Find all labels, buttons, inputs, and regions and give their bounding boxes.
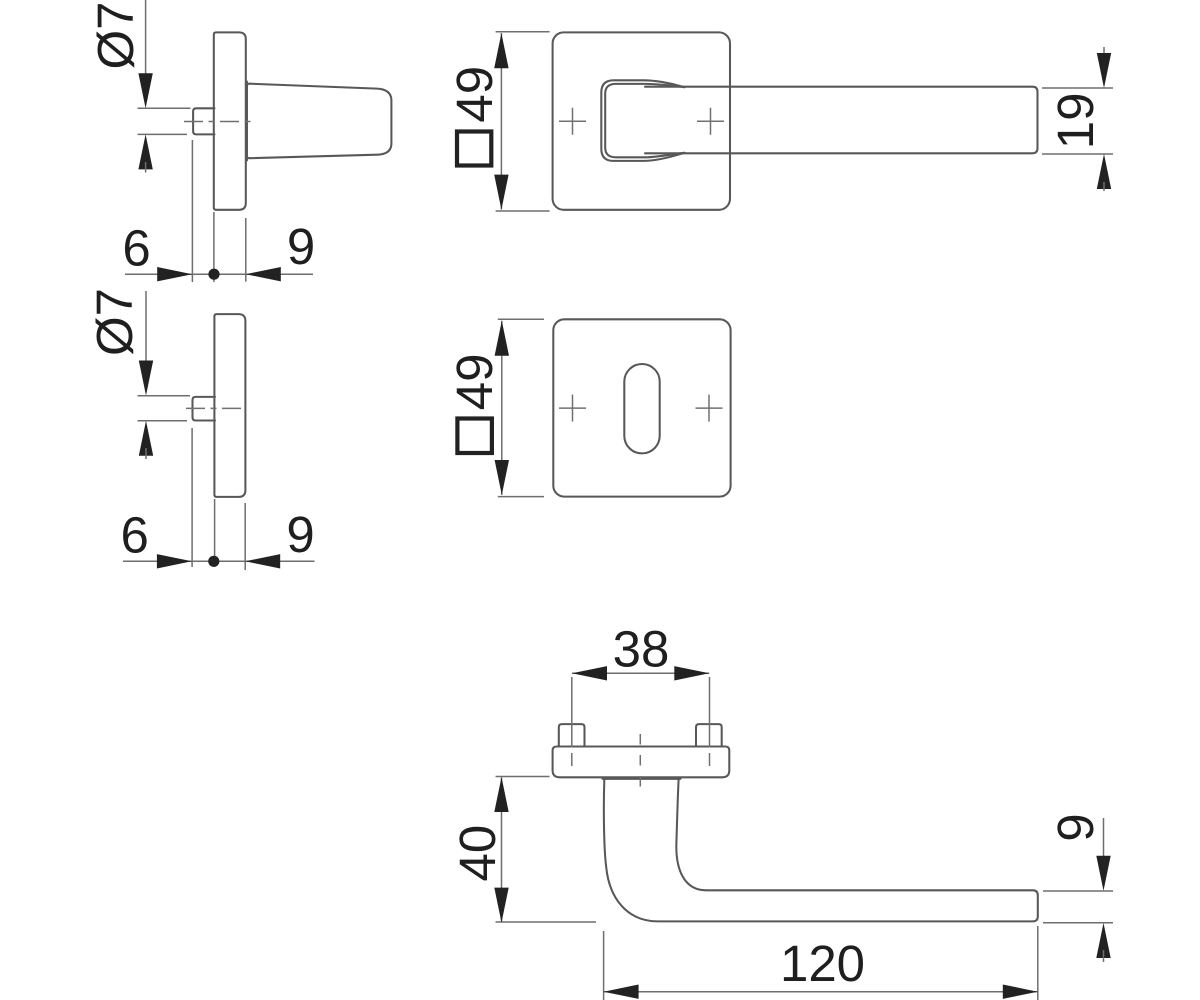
handle neck cone base line xyxy=(246,82,248,161)
svg-text:9: 9 xyxy=(286,506,314,563)
svg-text:38: 38 xyxy=(613,620,670,677)
extension line from rose face xyxy=(214,499,216,567)
spindle stub Ø7 xyxy=(193,397,216,421)
dimension Ø7 extension line top xyxy=(138,107,191,109)
dimension line 6 / 9 xyxy=(123,560,315,562)
dimension Ø7 upper line and arrow xyxy=(145,291,147,367)
spindle stub Ø7 xyxy=(193,108,214,134)
dimension line 6 / 9 xyxy=(125,273,313,275)
dimension Ø7 lower arrow with tail xyxy=(138,134,152,169)
extension line from stub left edge xyxy=(191,140,193,282)
rosette side profile xyxy=(214,32,246,209)
arrow right (9) xyxy=(246,267,281,281)
key rose side profile xyxy=(214,314,245,497)
dimension Ø7 lower arrow with tail xyxy=(139,421,153,456)
screw mark left (+) xyxy=(559,395,586,422)
reference dot at rose face xyxy=(208,556,219,567)
handle neck inner contour xyxy=(605,84,684,157)
extension line from rosette face xyxy=(213,212,215,282)
handle neck cone outline xyxy=(247,84,392,159)
svg-text:6: 6 xyxy=(121,506,149,563)
arrow left (6) xyxy=(157,554,192,568)
svg-text:Ø7: Ø7 xyxy=(86,288,143,356)
dimension 9 arrows outside xyxy=(1103,818,1105,862)
centerline of key rose xyxy=(186,407,246,409)
dimension line 38 with arrows xyxy=(572,672,709,674)
lever bar xyxy=(645,87,1038,154)
screw boss right xyxy=(696,724,722,746)
svg-text:19: 19 xyxy=(1047,93,1104,150)
extension line from rose right edge xyxy=(244,503,246,570)
centerline plate middle xyxy=(639,734,641,790)
svg-text:120: 120 xyxy=(780,935,865,992)
dimension Ø7 extension line bottom xyxy=(138,133,188,135)
extension line from cone base xyxy=(245,218,247,282)
arrow right (9) xyxy=(245,554,280,568)
dimension square-49 extension lines xyxy=(498,318,544,320)
dimension square-49 line with arrows xyxy=(500,33,502,210)
dimension 19 arrows outside xyxy=(1103,47,1105,60)
square symbol of label square-49 xyxy=(457,419,492,454)
screw mark left (+) xyxy=(559,108,586,135)
dimension 120 line with arrows xyxy=(604,991,1038,993)
dimension 9 extension lines xyxy=(1043,890,1113,892)
reference dot at rosette face xyxy=(208,269,219,280)
dimension 40 extension lines xyxy=(496,776,550,778)
square rose 49x49 xyxy=(553,32,730,209)
svg-text:6: 6 xyxy=(122,219,150,276)
centerline screw axis left xyxy=(571,677,573,748)
handle outline (neck bend and grip bar) xyxy=(604,780,1038,922)
arrow left (6) xyxy=(157,267,192,281)
dimension 120 extension lines xyxy=(603,931,605,1000)
dimension square-49 extension line top xyxy=(496,31,550,33)
screw mark right (+) xyxy=(696,395,723,422)
keyhole slot xyxy=(624,364,659,453)
mounting plate xyxy=(553,747,730,778)
extension line from stub left edge xyxy=(191,428,193,567)
centerline screw axis right xyxy=(709,677,711,748)
dimension square-49 line with arrows xyxy=(501,321,503,495)
svg-text:Ø7: Ø7 xyxy=(87,1,144,69)
dimension 19 extension lines xyxy=(1042,87,1113,89)
square symbol of label square-49 xyxy=(457,132,491,166)
dimension Ø7 extension lines xyxy=(138,395,191,397)
dimension 40 line with arrows xyxy=(501,778,503,923)
svg-text:49: 49 xyxy=(446,354,503,411)
svg-text:40: 40 xyxy=(449,825,506,882)
dimension Ø7 upper line and arrow xyxy=(145,0,147,80)
neck shoulder line xyxy=(603,778,681,780)
screw mark right (+) xyxy=(697,108,724,135)
svg-text:9: 9 xyxy=(287,218,315,275)
dimension square-49 extension line bottom xyxy=(496,210,550,212)
handle neck outer contour xyxy=(601,80,684,161)
centerline of spindle axis xyxy=(184,121,256,123)
screw boss left xyxy=(559,724,585,746)
svg-text:9: 9 xyxy=(1047,813,1104,841)
svg-text:49: 49 xyxy=(446,66,503,123)
square key rose 49x49 xyxy=(553,319,730,496)
